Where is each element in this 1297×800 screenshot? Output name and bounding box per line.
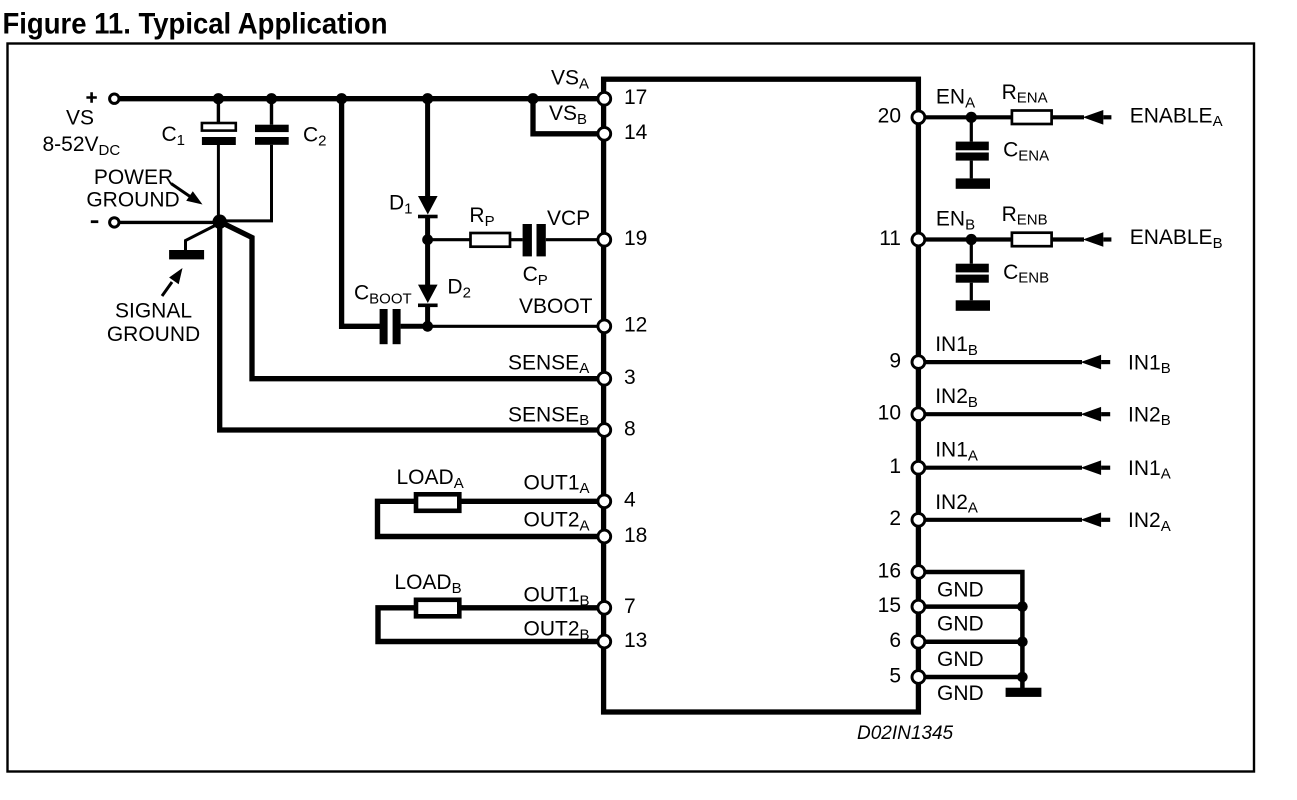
capacitor CENB xyxy=(956,240,989,301)
pin 1 xyxy=(889,455,924,478)
svg-text:9: 9 xyxy=(889,350,901,373)
svg-text:10: 10 xyxy=(878,402,901,425)
pin 9 xyxy=(889,350,924,373)
wire CBOOT branch xyxy=(342,96,380,326)
resistor RP xyxy=(471,233,511,247)
pin 17 xyxy=(598,86,647,109)
wire D2 to VBOOT junction xyxy=(425,307,430,329)
svg-text:19: 19 xyxy=(624,227,647,250)
signal ground symbol xyxy=(169,226,215,260)
diode D1 xyxy=(418,196,438,218)
pin 15 xyxy=(878,594,925,617)
pin 12 xyxy=(598,314,647,337)
positive supply terminal xyxy=(86,92,119,103)
wire D1 branch xyxy=(425,96,430,197)
pin 11 xyxy=(879,227,925,250)
ground CENB xyxy=(956,300,990,311)
svg-text:7: 7 xyxy=(624,595,636,618)
svg-text:POWER: POWER xyxy=(94,166,173,189)
svg-text:VCP: VCP xyxy=(547,207,590,230)
svg-text:16: 16 xyxy=(878,559,901,582)
junction dot GND15 xyxy=(1017,601,1028,612)
svg-text:D02IN1345: D02IN1345 xyxy=(857,723,954,744)
svg-text:SENSEB: SENSEB xyxy=(508,403,589,429)
wire CP to pin 19 xyxy=(546,238,604,241)
label POWER GROUND xyxy=(86,166,179,211)
wire VSB branch xyxy=(533,99,604,134)
svg-text:1: 1 xyxy=(889,455,901,478)
VCP node junction xyxy=(422,234,433,245)
IC U1 body xyxy=(604,79,919,712)
ENABLEB input arrow xyxy=(1083,232,1112,247)
svg-text:3: 3 xyxy=(624,366,636,389)
svg-text:12: 12 xyxy=(624,314,647,337)
wire VS rail xyxy=(118,96,604,101)
capacitor CBOOT xyxy=(380,309,401,344)
negative supply terminal xyxy=(91,218,119,227)
diode D2 xyxy=(418,285,438,308)
junction dot D1/rail xyxy=(422,93,433,104)
IN1A input arrow xyxy=(1081,460,1111,475)
svg-text:4: 4 xyxy=(624,489,636,512)
load A loop wires xyxy=(378,501,604,536)
pin 5 xyxy=(889,664,924,687)
svg-text:11: 11 xyxy=(879,227,901,250)
svg-text:Figure 11. Typical Application: Figure 11. Typical Application xyxy=(3,7,388,40)
wire GND pin16 xyxy=(918,572,1022,688)
capacitor C1 xyxy=(202,96,236,216)
junction dot GND5 xyxy=(1017,672,1028,683)
resistor LOADB xyxy=(416,600,459,617)
svg-text:18: 18 xyxy=(624,524,647,547)
svg-text:GND: GND xyxy=(937,613,984,636)
svg-text:ENABLEB: ENABLEB xyxy=(1130,226,1223,252)
ground CENA xyxy=(956,178,990,188)
pin 18 xyxy=(598,524,647,547)
wire RP to CP xyxy=(510,238,523,241)
wire pin11 to RENB xyxy=(918,237,1012,241)
pin 4 xyxy=(598,489,636,512)
wire VBOOT xyxy=(428,325,604,328)
resistor RENA xyxy=(1012,111,1052,125)
wire D2 branch xyxy=(425,240,430,285)
label SIGNAL GROUND xyxy=(107,300,200,347)
wire negative terminal to power ground xyxy=(118,221,214,224)
junction dot GND6 xyxy=(1017,637,1028,648)
wire IN2A xyxy=(918,518,1082,522)
arrow to signal ground xyxy=(162,268,183,296)
svg-text:LOADB: LOADB xyxy=(394,571,461,597)
pin 10 xyxy=(878,402,925,425)
load B loop wires xyxy=(378,608,604,642)
wire RENA to arrow xyxy=(1052,115,1084,119)
svg-text:ENABLEA: ENABLEA xyxy=(1130,104,1223,130)
junction dot CBOOT/rail xyxy=(336,93,347,104)
pin 13 xyxy=(598,629,647,652)
power ground junction xyxy=(213,215,227,229)
wire D1 to VCP node xyxy=(425,218,430,242)
wire RENB to arrow xyxy=(1052,237,1084,241)
arrow to power ground xyxy=(171,184,203,205)
pin 19 xyxy=(598,227,647,250)
resistor LOADA xyxy=(416,494,459,511)
junction dot C1/rail xyxy=(213,93,224,104)
wire IN1A xyxy=(918,466,1082,470)
ground symbol right xyxy=(1006,688,1042,697)
pin 7 xyxy=(598,595,636,618)
ENABLEA input arrow xyxy=(1083,110,1112,125)
wire IN2B xyxy=(918,412,1082,416)
svg-text:17: 17 xyxy=(624,86,647,109)
svg-text:GROUND: GROUND xyxy=(107,323,200,346)
svg-text:LOADA: LOADA xyxy=(397,466,464,492)
svg-text:14: 14 xyxy=(624,121,648,144)
wire GND pin5 xyxy=(918,675,1022,680)
pin 3 xyxy=(598,366,636,389)
junction dot VSB/rail xyxy=(527,93,538,104)
capacitor C2 xyxy=(225,96,289,221)
svg-text:GND: GND xyxy=(937,579,984,602)
IN1B input arrow xyxy=(1081,355,1111,370)
wire IN1B xyxy=(918,360,1082,364)
wire pin20 to RENA xyxy=(918,115,1012,119)
pin 16 xyxy=(878,559,925,582)
svg-text:SIGNAL: SIGNAL xyxy=(115,300,192,323)
VBOOT junction dot xyxy=(422,321,433,332)
ENB junction dot xyxy=(966,234,977,245)
pin 2 xyxy=(889,507,924,530)
pin 8 xyxy=(598,417,636,440)
svg-text:5: 5 xyxy=(889,664,901,687)
IN2A input arrow xyxy=(1081,513,1111,528)
wire SENSEA xyxy=(222,223,604,379)
svg-text:SENSEA: SENSEA xyxy=(508,351,589,377)
pin 14 xyxy=(598,121,648,144)
junction dot C2/rail xyxy=(266,93,277,104)
resistor RENB xyxy=(1012,233,1052,247)
svg-text:VBOOT: VBOOT xyxy=(519,295,593,318)
svg-text:2: 2 xyxy=(889,507,901,530)
wire CBOOT to VBOOT junction xyxy=(401,324,428,329)
wire node to RP xyxy=(428,238,471,241)
svg-text:6: 6 xyxy=(889,629,901,652)
svg-text:GND: GND xyxy=(937,682,984,705)
wire GND pin15 xyxy=(918,604,1022,609)
IN2B input arrow xyxy=(1081,407,1111,422)
capacitor CENA xyxy=(956,117,989,178)
wire SENSEB xyxy=(220,222,604,431)
pin 20 xyxy=(878,105,925,128)
svg-text:VS: VS xyxy=(66,107,94,130)
ENA junction dot xyxy=(966,112,977,123)
svg-text:8: 8 xyxy=(624,417,636,440)
svg-text:GROUND: GROUND xyxy=(86,188,179,211)
wire GND pin6 xyxy=(918,640,1022,645)
capacitor CP xyxy=(523,224,546,256)
svg-text:GND: GND xyxy=(937,648,984,671)
svg-text:13: 13 xyxy=(624,629,647,652)
svg-text:15: 15 xyxy=(878,594,901,617)
svg-text:20: 20 xyxy=(878,105,901,128)
pin 6 xyxy=(889,629,924,652)
